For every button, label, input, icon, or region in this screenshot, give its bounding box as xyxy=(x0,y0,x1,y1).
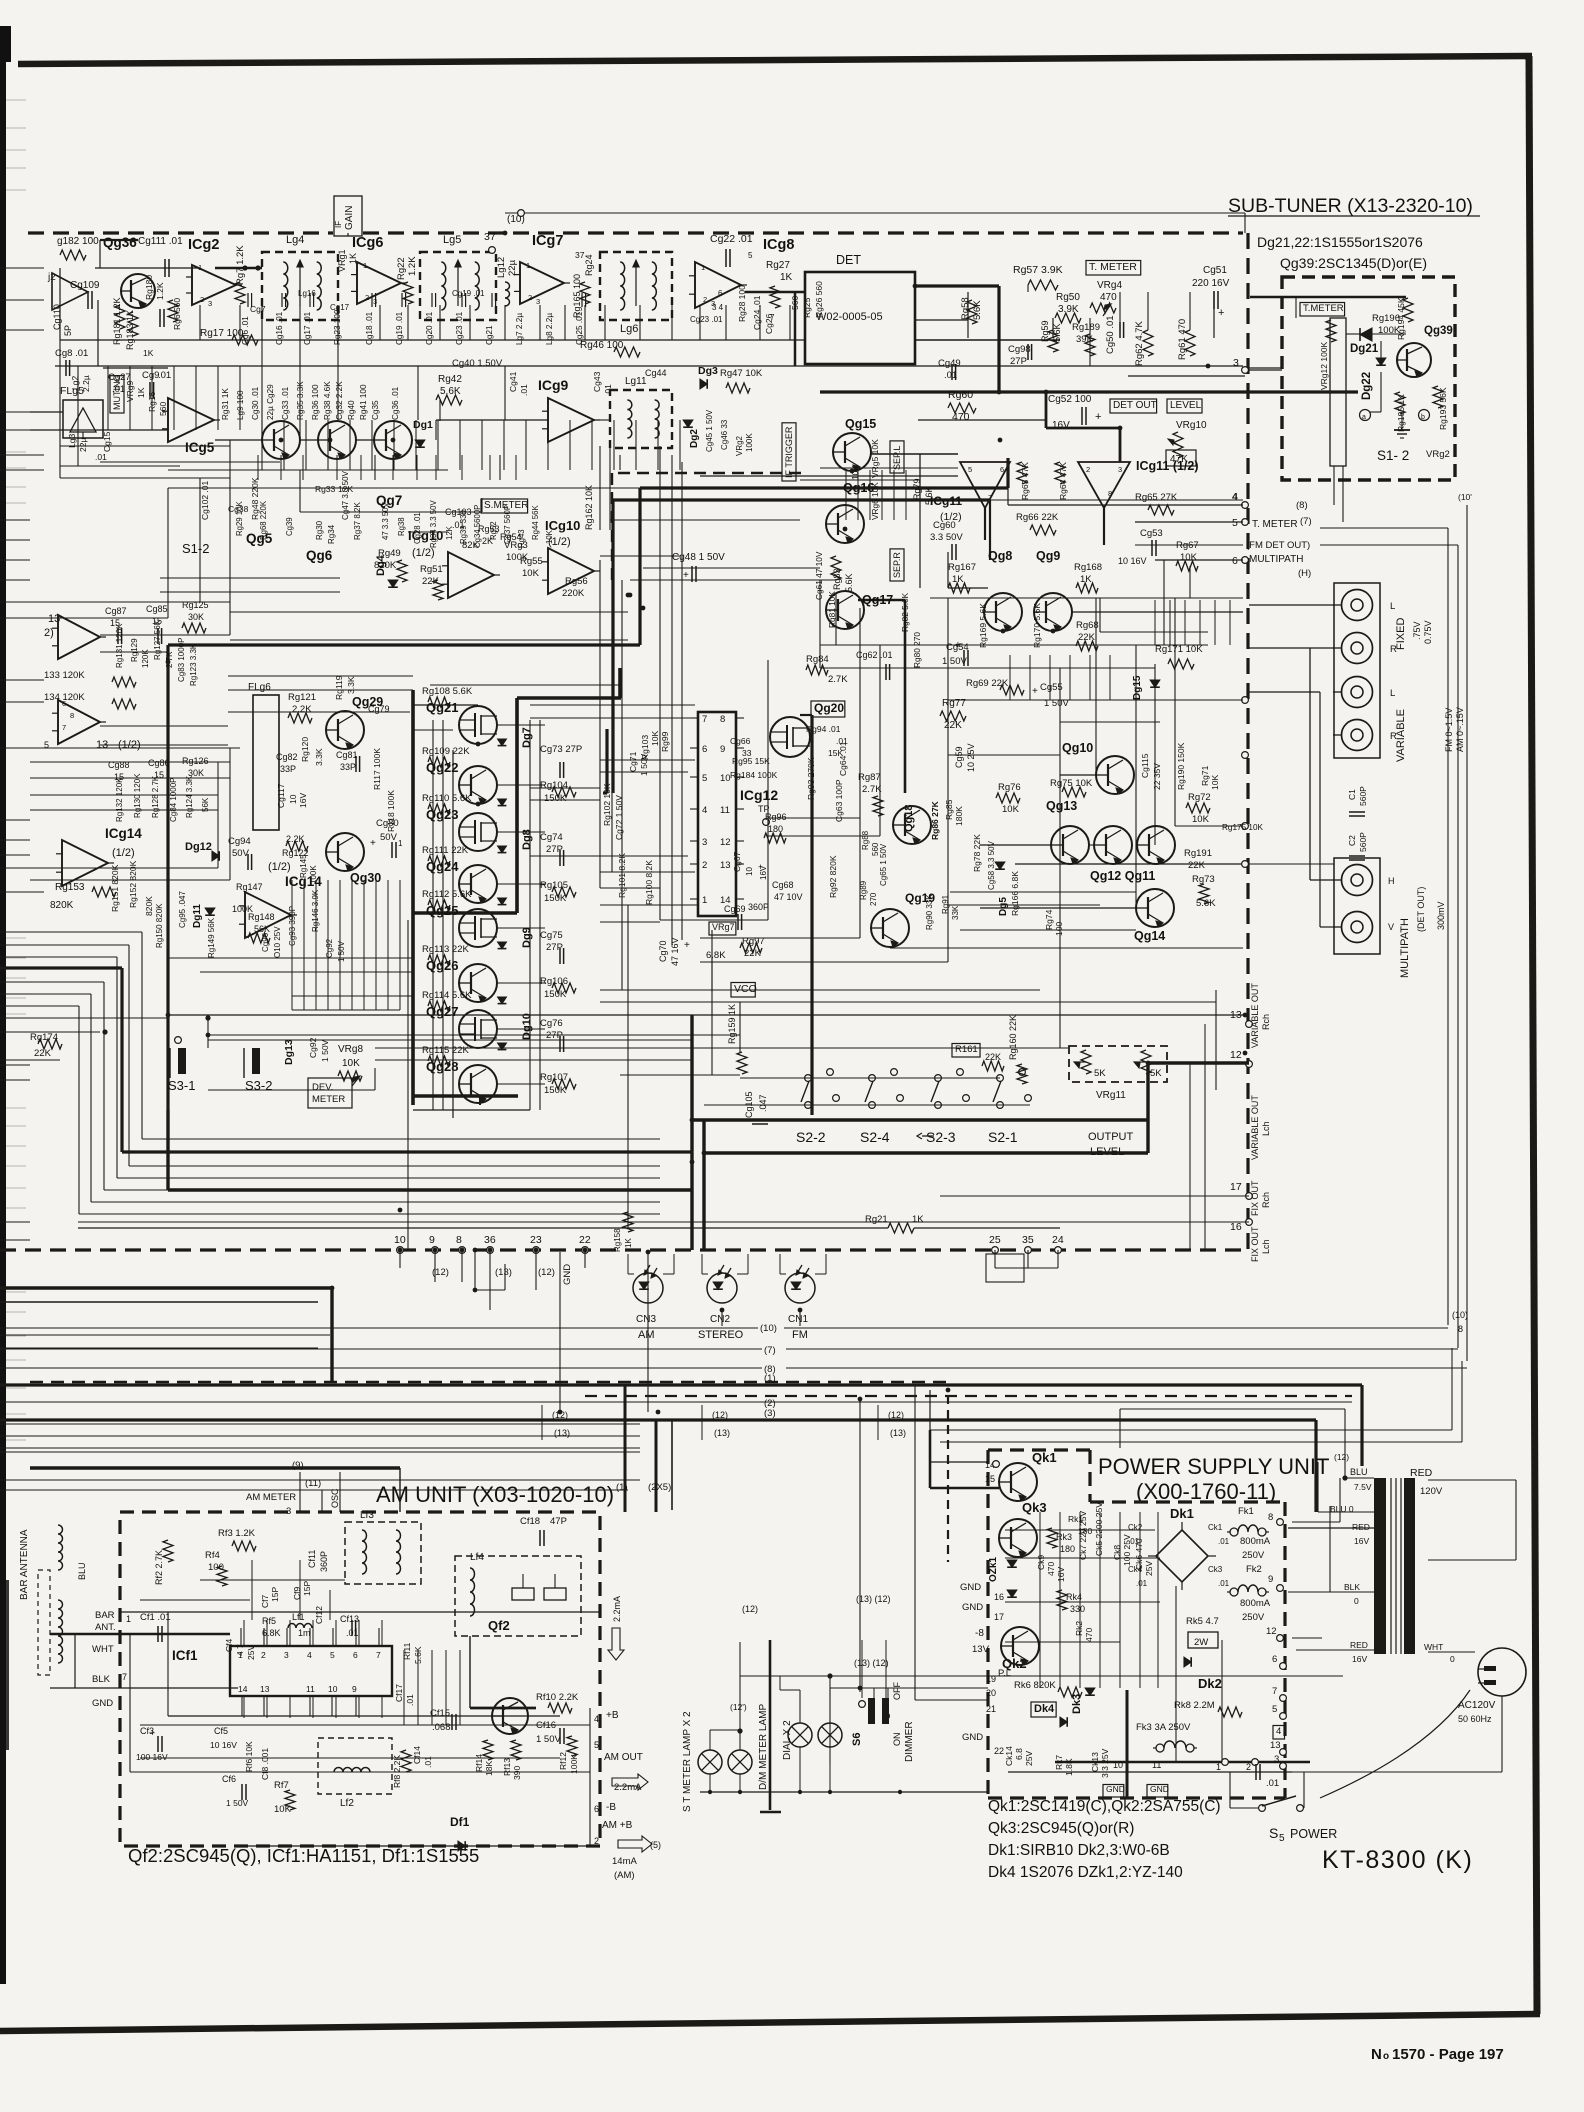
svg-text:Cg45 1 50V: Cg45 1 50V xyxy=(705,409,714,452)
svg-text:(1): (1) xyxy=(764,1373,776,1384)
svg-text:3.9K: 3.9K xyxy=(1058,304,1079,315)
wire xyxy=(1457,545,1459,1348)
svg-text:37: 37 xyxy=(484,231,496,243)
pin xyxy=(1277,1635,1284,1642)
resistor xyxy=(1395,392,1405,414)
svg-text:3: 3 xyxy=(702,837,707,848)
wire xyxy=(195,366,197,430)
capacitor xyxy=(451,1714,453,1730)
wire xyxy=(91,1201,660,1203)
box xyxy=(1166,450,1196,466)
wire xyxy=(1317,1462,1319,1512)
wire xyxy=(0,931,142,933)
junction xyxy=(798,1308,803,1313)
svg-text:SUB-TUNER (X13-2320-10): SUB-TUNER (X13-2320-10) xyxy=(1228,195,1473,217)
wire xyxy=(0,329,44,331)
svg-text:Rf7: Rf7 xyxy=(274,1780,289,1791)
svg-text:0.75V: 0.75V xyxy=(1423,620,1433,644)
wire xyxy=(600,904,698,906)
wire xyxy=(0,1479,640,1481)
svg-text:Cg82: Cg82 xyxy=(276,752,298,762)
wire xyxy=(947,598,949,962)
wire xyxy=(1466,505,1468,1361)
svg-text:AM METER: AM METER xyxy=(246,1492,296,1503)
svg-text:.75V: .75V xyxy=(1412,621,1422,640)
wire xyxy=(1119,1512,1121,1688)
wire xyxy=(78,1221,1249,1223)
wire xyxy=(736,717,744,719)
wire xyxy=(681,462,683,940)
svg-text:150K: 150K xyxy=(544,1085,567,1096)
wire xyxy=(117,1177,660,1179)
svg-text:MULTIPATH: MULTIPATH xyxy=(1399,918,1411,978)
wire xyxy=(461,1250,463,1282)
capacitor xyxy=(963,650,965,666)
wire xyxy=(525,420,527,470)
svg-text:6: 6 xyxy=(62,699,66,708)
wire xyxy=(375,1059,692,1061)
wire xyxy=(947,1395,949,1562)
wire xyxy=(442,720,444,1110)
svg-text:Lg4: Lg4 xyxy=(286,234,304,246)
junction xyxy=(1243,1051,1248,1056)
wire xyxy=(1292,1637,1322,1639)
svg-text:22µ: 22µ xyxy=(78,438,88,452)
shape xyxy=(718,1270,723,1275)
wire xyxy=(673,1254,675,1274)
svg-text:22K: 22K xyxy=(34,1048,52,1059)
pin xyxy=(891,1069,898,1076)
wire xyxy=(522,1574,524,1588)
box xyxy=(1188,1632,1218,1648)
svg-text:14mA: 14mA xyxy=(612,1856,637,1867)
svg-text:(1/2): (1/2) xyxy=(112,847,135,859)
wire xyxy=(393,420,395,470)
wire xyxy=(799,1690,801,1723)
wire xyxy=(663,1273,674,1275)
wire xyxy=(28,231,333,234)
capacitor xyxy=(164,259,166,277)
capacitor xyxy=(1349,855,1365,857)
svg-text:ICg11: ICg11 xyxy=(930,494,962,508)
wire xyxy=(829,1747,831,1792)
wire xyxy=(0,819,30,821)
svg-text:+: + xyxy=(683,570,689,581)
capacitor xyxy=(281,293,283,307)
resistor xyxy=(948,403,976,413)
transistor xyxy=(826,505,864,543)
svg-text:22µ Cg29: 22µ Cg29 xyxy=(266,384,275,420)
svg-text:560: 560 xyxy=(158,402,168,416)
wire xyxy=(200,971,413,973)
svg-text:.01: .01 xyxy=(1218,1579,1230,1588)
wire xyxy=(430,684,620,686)
wire xyxy=(1008,504,1243,506)
transistor xyxy=(459,964,497,1002)
pin xyxy=(1242,697,1249,704)
resistor xyxy=(338,1071,362,1081)
svg-text:(12): (12) xyxy=(742,1604,758,1614)
svg-text:3 4: 3 4 xyxy=(712,303,724,312)
box xyxy=(512,1588,534,1600)
diode xyxy=(1184,1657,1191,1667)
wire xyxy=(690,898,698,900)
svg-text:Rg51: Rg51 xyxy=(420,564,443,575)
wire xyxy=(1230,1807,1258,1809)
wire xyxy=(739,1002,741,1052)
svg-text:Rf13: Rf13 xyxy=(502,1758,512,1776)
capacitor xyxy=(159,309,161,327)
svg-text:25V: 25V xyxy=(1144,1561,1154,1576)
svg-text:Cg74: Cg74 xyxy=(540,832,563,843)
IF transformer xyxy=(610,390,672,448)
wire xyxy=(767,660,769,920)
junction xyxy=(1051,629,1056,634)
wire xyxy=(643,567,820,569)
transistor xyxy=(326,833,364,871)
wire xyxy=(699,305,701,340)
resistor xyxy=(1076,583,1098,593)
boxed label xyxy=(890,549,904,581)
wire xyxy=(740,1077,1000,1079)
wire xyxy=(585,1395,1352,1397)
svg-text:4: 4 xyxy=(1232,491,1238,503)
junction xyxy=(1001,629,1006,634)
wire xyxy=(55,365,1243,367)
svg-text:10 16V: 10 16V xyxy=(1118,556,1147,566)
wire xyxy=(329,1590,331,1620)
wire xyxy=(1008,1771,1292,1773)
inductor xyxy=(475,262,480,310)
svg-text:Qf2:2SC945(Q), ICf1:HA1151, Df: Qf2:2SC945(Q), ICf1:HA1151, Df1:1S1555 xyxy=(128,1845,479,1866)
wire xyxy=(497,1028,545,1030)
wire xyxy=(940,1441,1462,1443)
svg-text:1: 1 xyxy=(1216,1762,1221,1772)
wire xyxy=(355,1696,357,1716)
junction xyxy=(708,1790,712,1794)
svg-text:Cf15: Cf15 xyxy=(430,1708,450,1719)
svg-text:Cg48 1 50V: Cg48 1 50V xyxy=(672,552,725,563)
svg-text:Rg31 1K: Rg31 1K xyxy=(221,388,230,420)
wire xyxy=(930,1487,999,1490)
svg-text:OSC: OSC xyxy=(330,1488,340,1508)
svg-text:11: 11 xyxy=(720,805,730,816)
wire xyxy=(1262,1796,1296,1806)
wire xyxy=(489,455,491,480)
svg-text:Lch: Lch xyxy=(1261,1239,1271,1254)
capacitor xyxy=(431,293,433,307)
wire xyxy=(1089,844,1094,846)
svg-text:5: 5 xyxy=(1272,1704,1277,1715)
wire xyxy=(1060,699,1243,701)
diode xyxy=(683,420,693,427)
svg-text:Rg108 5.6K: Rg108 5.6K xyxy=(422,686,473,697)
wire xyxy=(1135,521,1243,523)
svg-text:2.2mA: 2.2mA xyxy=(612,1596,622,1622)
wire xyxy=(950,891,1136,893)
svg-text:(13): (13) xyxy=(890,1428,906,1438)
wire xyxy=(779,1254,781,1274)
svg-text:820K: 820K xyxy=(50,900,74,911)
inductor xyxy=(288,1624,312,1629)
wire xyxy=(0,1489,628,1491)
resistor xyxy=(128,312,138,336)
node xyxy=(1360,410,1371,421)
svg-text:100: 100 xyxy=(1054,922,1064,936)
svg-text:b: b xyxy=(1421,414,1425,421)
op-amp xyxy=(192,265,236,305)
FET transistor xyxy=(459,1010,497,1048)
wire xyxy=(877,1405,879,1440)
svg-text:OZk1: OZk1 xyxy=(988,1557,999,1582)
resistor xyxy=(428,697,450,707)
svg-text:AM +B: AM +B xyxy=(602,1820,633,1831)
svg-text:(H): (H) xyxy=(1298,568,1311,579)
svg-text:ICf1: ICf1 xyxy=(172,1648,198,1663)
wire xyxy=(481,420,483,470)
wire xyxy=(701,1405,703,1440)
svg-text:Rg175 10K: Rg175 10K xyxy=(1222,823,1264,832)
wire xyxy=(331,1696,333,1716)
svg-text:Rg109 22K: Rg109 22K xyxy=(422,746,470,757)
resistor xyxy=(1185,330,1195,356)
wire xyxy=(618,472,806,474)
wire xyxy=(300,511,482,513)
svg-text:BLK: BLK xyxy=(1344,1582,1360,1592)
svg-text:Lf2: Lf2 xyxy=(340,1798,354,1809)
svg-text:Lf3: Lf3 xyxy=(360,1510,374,1521)
wire xyxy=(1370,411,1381,413)
svg-text:Rg17 100: Rg17 100 xyxy=(200,328,244,339)
svg-text:Rg21: Rg21 xyxy=(865,1214,888,1225)
wire xyxy=(871,453,958,455)
box xyxy=(345,1522,421,1584)
bar xyxy=(1404,1478,1415,1654)
wire xyxy=(504,1264,506,1290)
svg-text:Lg5: Lg5 xyxy=(443,234,461,246)
capacitor xyxy=(539,1530,541,1546)
svg-text:Cg76: Cg76 xyxy=(540,1018,563,1029)
wire xyxy=(915,1699,988,1701)
svg-text:O10 25V: O10 25V xyxy=(273,926,282,958)
resistor xyxy=(1058,1687,1082,1697)
svg-text:3: 3 xyxy=(1274,1754,1279,1765)
junction xyxy=(690,1118,695,1123)
svg-text:Rg95 15K: Rg95 15K xyxy=(732,756,770,766)
junction xyxy=(488,1248,493,1253)
svg-text:Dk2: Dk2 xyxy=(1198,1676,1222,1691)
svg-text:22K: 22K xyxy=(1188,860,1206,871)
pin xyxy=(1242,861,1249,868)
capacitor xyxy=(559,1036,561,1052)
resistor xyxy=(286,841,308,851)
svg-text:4: 4 xyxy=(1276,1726,1281,1737)
wire xyxy=(980,844,1051,846)
wire xyxy=(6,167,26,169)
wire xyxy=(100,239,138,241)
svg-text:Cg23 .01: Cg23 .01 xyxy=(690,315,723,324)
wire xyxy=(784,1327,1448,1329)
wire xyxy=(266,1620,268,1646)
shape xyxy=(608,1628,624,1660)
svg-text:(9): (9) xyxy=(292,1460,304,1471)
RCA jack xyxy=(1342,865,1373,896)
wire xyxy=(97,300,99,366)
wire xyxy=(292,995,413,997)
svg-text:Cg94: Cg94 xyxy=(228,836,251,847)
svg-text:Rg190 150K: Rg190 150K xyxy=(1176,742,1186,790)
svg-text:50V: 50V xyxy=(232,848,250,859)
svg-text:Qg13: Qg13 xyxy=(1046,799,1077,813)
svg-text:12K: 12K xyxy=(445,525,454,540)
svg-text:360P: 360P xyxy=(748,902,769,912)
svg-text:7: 7 xyxy=(770,313,775,322)
svg-text:WHT: WHT xyxy=(92,1644,114,1655)
diode xyxy=(1060,1717,1067,1727)
svg-text:7: 7 xyxy=(376,1650,381,1660)
svg-text:Cg21: Cg21 xyxy=(485,325,494,345)
wire xyxy=(621,580,623,990)
svg-text:100K: 100K xyxy=(569,1754,579,1774)
wire xyxy=(1318,1511,1374,1513)
shape xyxy=(70,408,96,432)
junction xyxy=(583,1248,588,1253)
svg-text:Rg166 6.8K: Rg166 6.8K xyxy=(1010,871,1020,916)
op-amp xyxy=(548,398,594,442)
wire xyxy=(768,817,860,819)
wire xyxy=(6,1207,26,1209)
transistor xyxy=(1051,826,1089,864)
wire xyxy=(60,465,180,467)
svg-text:4: 4 xyxy=(307,1650,312,1660)
svg-text:Rg102 10K: Rg102 10K xyxy=(602,783,612,826)
svg-text:Cg71: Cg71 xyxy=(628,751,638,772)
svg-text:7: 7 xyxy=(702,714,707,725)
svg-text:150K: 150K xyxy=(544,893,567,904)
wire xyxy=(6,127,26,129)
LED indicator xyxy=(633,1273,663,1303)
wire xyxy=(435,455,437,480)
boxed label xyxy=(1273,1726,1285,1740)
svg-text:(13): (13) xyxy=(714,1428,730,1438)
wire xyxy=(690,840,698,842)
diode xyxy=(498,997,507,1004)
wire xyxy=(499,455,501,480)
wire xyxy=(142,1138,660,1140)
junction xyxy=(828,1790,832,1794)
wire xyxy=(1109,655,1111,700)
wire xyxy=(671,305,673,340)
svg-text:Cf12: Cf12 xyxy=(314,1606,324,1624)
svg-text:.068: .068 xyxy=(432,1722,451,1733)
svg-text:20: 20 xyxy=(986,1688,996,1698)
junction xyxy=(898,1790,902,1794)
diode xyxy=(205,908,215,915)
wire xyxy=(690,776,698,778)
wire xyxy=(1400,437,1404,439)
svg-text:Rg171 10K: Rg171 10K xyxy=(1155,644,1203,655)
svg-text:Rg74: Rg74 xyxy=(1044,909,1054,930)
svg-text:12: 12 xyxy=(720,837,731,848)
wire xyxy=(1346,333,1360,335)
wire xyxy=(120,1611,600,1613)
wire xyxy=(619,455,621,470)
svg-text:Rg24: Rg24 xyxy=(584,254,594,276)
pin xyxy=(1242,502,1249,509)
svg-text:Rg57 3.9K: Rg57 3.9K xyxy=(1013,264,1063,276)
bar xyxy=(6,1580,9,1750)
svg-text:220K: 220K xyxy=(562,588,585,599)
wire xyxy=(479,1096,481,1105)
wire xyxy=(504,366,506,420)
svg-text:560P: 560P xyxy=(1358,832,1368,852)
svg-text:Rg38: Rg38 xyxy=(397,517,406,536)
wire xyxy=(690,808,698,810)
svg-text:VRg1: VRg1 xyxy=(337,249,347,272)
lamp xyxy=(728,1750,752,1774)
wire xyxy=(829,1676,831,1723)
wire xyxy=(700,1791,988,1793)
shape xyxy=(651,1273,656,1278)
wire xyxy=(1244,213,1246,233)
wire xyxy=(59,340,61,478)
svg-text:Fk2: Fk2 xyxy=(1246,1564,1262,1575)
wire xyxy=(0,1451,640,1453)
wire xyxy=(736,898,744,900)
wire xyxy=(0,1286,332,1289)
svg-text:Cg67: Cg67 xyxy=(732,851,742,872)
svg-text:.01: .01 xyxy=(95,452,107,462)
svg-text:SEP.R: SEP.R xyxy=(892,552,902,578)
lamp xyxy=(788,1723,812,1747)
wire xyxy=(332,1628,334,1646)
svg-text:Cg117: Cg117 xyxy=(276,783,286,808)
wire xyxy=(6,1291,26,1293)
wire xyxy=(6,957,26,959)
wire xyxy=(1428,1479,1516,1481)
svg-text:Cg58 3.3 50V: Cg58 3.3 50V xyxy=(987,840,996,890)
svg-text:V: V xyxy=(1388,922,1394,932)
diode xyxy=(1150,680,1160,687)
svg-text:4: 4 xyxy=(702,805,707,816)
svg-text:(1/2): (1/2) xyxy=(268,861,291,873)
resistor xyxy=(1141,1050,1151,1074)
wire xyxy=(347,233,349,236)
svg-text:Cg36 .01: Cg36 .01 xyxy=(391,386,400,420)
wire xyxy=(168,957,413,959)
svg-text:(10): (10) xyxy=(1452,1310,1468,1320)
svg-text:1.8K: 1.8K xyxy=(1064,1758,1074,1776)
resistor xyxy=(428,757,450,767)
wire xyxy=(77,366,79,466)
wire xyxy=(904,600,907,793)
wire xyxy=(737,1273,748,1275)
svg-text:Dg2: Dg2 xyxy=(689,429,700,448)
junction xyxy=(998,438,1003,443)
wire xyxy=(1089,318,1091,366)
wire xyxy=(929,1390,931,1462)
svg-text:Cg83 1000P: Cg83 1000P xyxy=(177,638,186,682)
pin xyxy=(935,1075,942,1082)
wire xyxy=(600,555,680,557)
wire xyxy=(1250,296,1406,298)
wire xyxy=(628,1273,634,1275)
svg-text:Rg37 8.2K: Rg37 8.2K xyxy=(353,502,362,540)
wire xyxy=(30,617,168,619)
wire xyxy=(997,286,1000,392)
wire xyxy=(1174,598,1176,826)
svg-text:STEREO: STEREO xyxy=(698,1329,744,1341)
